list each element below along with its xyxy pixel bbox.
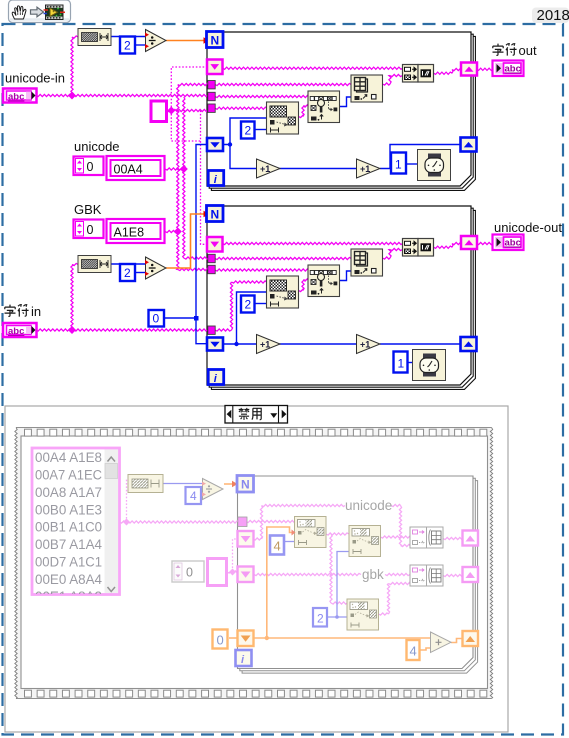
svg-text:N: N	[211, 208, 220, 222]
svg-text:2: 2	[124, 266, 131, 280]
svg-text:abc: abc	[8, 92, 24, 103]
svg-text:abc: abc	[8, 326, 24, 337]
svg-text:gbk: gbk	[362, 567, 384, 582]
svg-text:abc: abc	[505, 238, 521, 249]
svg-text:2: 2	[124, 39, 131, 53]
svg-text:2: 2	[245, 298, 252, 312]
svg-text:N: N	[211, 34, 220, 48]
svg-text:unicode: unicode	[74, 139, 120, 154]
svg-text:00A8 A1A7: 00A8 A1A7	[35, 485, 102, 500]
svg-text:00B1 A1C0: 00B1 A1C0	[35, 520, 102, 535]
svg-text:unicode-out: unicode-out	[494, 220, 562, 235]
svg-text:A1E8: A1E8	[114, 226, 145, 240]
svg-text:0: 0	[153, 312, 160, 326]
svg-text:4: 4	[274, 539, 281, 554]
svg-text:0: 0	[186, 566, 193, 580]
svg-text:00B0 A1E3: 00B0 A1E3	[35, 503, 102, 518]
svg-text:4: 4	[190, 489, 197, 503]
svg-text:2018: 2018	[537, 7, 569, 24]
svg-text:0: 0	[217, 633, 224, 648]
svg-text:GBK: GBK	[74, 202, 102, 217]
svg-text:abc: abc	[505, 64, 521, 75]
svg-text:N: N	[241, 478, 250, 492]
svg-text:00A4: 00A4	[114, 163, 143, 177]
svg-text:00B7 A1A4: 00B7 A1A4	[35, 537, 102, 552]
svg-text:00A7 A1EC: 00A7 A1EC	[35, 468, 102, 483]
svg-text:2: 2	[245, 124, 252, 138]
svg-text:00D7 A1C1: 00D7 A1C1	[35, 555, 102, 570]
svg-text:unicode: unicode	[345, 498, 392, 513]
svg-text:in: in	[31, 304, 41, 319]
svg-text:unicode-in: unicode-in	[5, 71, 65, 86]
svg-text:4: 4	[410, 644, 417, 659]
svg-text:00E0 A8A4: 00E0 A8A4	[35, 572, 102, 587]
svg-text:0: 0	[87, 160, 94, 174]
svg-text:2: 2	[317, 612, 324, 626]
svg-text:out: out	[519, 43, 537, 58]
svg-text:1: 1	[398, 357, 405, 371]
svg-text:1: 1	[395, 158, 402, 172]
svg-text:00A4 A1E8: 00A4 A1E8	[35, 450, 102, 465]
svg-text:0: 0	[87, 223, 94, 237]
